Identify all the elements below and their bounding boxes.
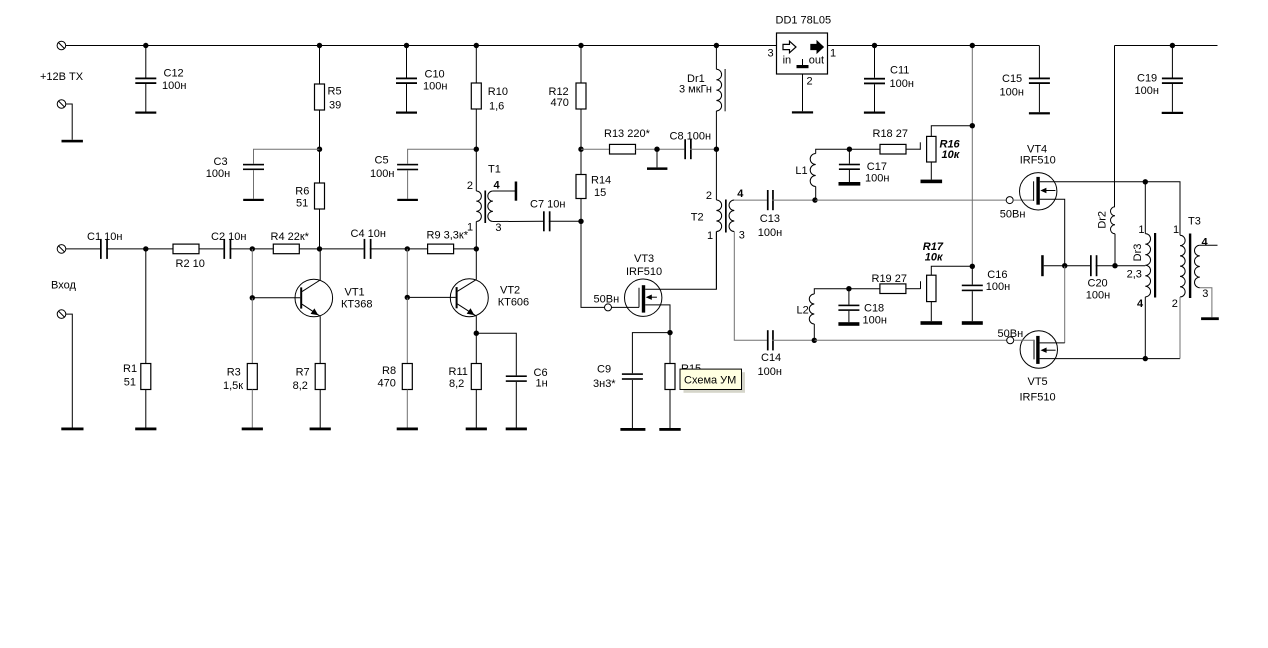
node L2 C18 R19 junction bbox=[846, 286, 851, 291]
node C20 Dr2 junction bbox=[1112, 263, 1117, 268]
svg-text:3: 3 bbox=[495, 222, 501, 234]
regulator DD1 78L05 bbox=[777, 33, 828, 74]
svg-text:1: 1 bbox=[1138, 224, 1144, 236]
wire T3 pin4 output bbox=[1200, 244, 1218, 246]
svg-text:3н3*: 3н3* bbox=[593, 378, 616, 390]
wire VT4 source bbox=[1040, 199, 1065, 265]
node bias R17 C16 bbox=[970, 264, 975, 269]
ground R16 bbox=[921, 180, 943, 184]
wire R19 to R17 wiper bbox=[906, 288, 921, 290]
ground C10 bbox=[396, 112, 417, 114]
capacitor C16 bbox=[971, 266, 973, 284]
terminal XS2 +12V return bbox=[57, 100, 66, 109]
svg-text:C13: C13 bbox=[760, 213, 780, 225]
svg-text:C9: C9 bbox=[597, 364, 611, 376]
ground C19 bbox=[1162, 112, 1183, 114]
wire R8 lower bbox=[406, 297, 408, 363]
ground R7 bbox=[310, 428, 331, 431]
capacitor C7 bbox=[543, 211, 551, 231]
svg-text:Dr3: Dr3 bbox=[1132, 244, 1144, 262]
wire midpoint to VT5 drain bbox=[1064, 266, 1066, 343]
svg-text:R2 10: R2 10 bbox=[176, 258, 205, 270]
node VT2 emitter junction bbox=[474, 331, 479, 336]
resistor R19 bbox=[849, 288, 880, 290]
svg-text:C4 10н: C4 10н bbox=[351, 228, 386, 240]
node VT4 drain Dr3 T3 junction bbox=[1143, 179, 1148, 184]
node rail R10 bbox=[474, 43, 479, 48]
R16 wiper tick bbox=[919, 142, 921, 150]
svg-text:51: 51 bbox=[296, 197, 308, 209]
svg-text:2,3: 2,3 bbox=[1127, 268, 1142, 280]
capacitor C6 bbox=[476, 333, 516, 375]
ground C17 bbox=[839, 182, 861, 186]
wire 50Вн to VT5 gate bbox=[1014, 339, 1034, 341]
svg-text:1н: 1н bbox=[536, 378, 548, 390]
wire T2 pin3 to C14 bbox=[734, 232, 767, 341]
feedthrough 50Вн VT5 bbox=[1007, 337, 1014, 344]
svg-text:1,6: 1,6 bbox=[489, 100, 504, 112]
feedthrough 50Вн VT3 bbox=[605, 304, 612, 311]
node C13 L1 junction bbox=[812, 197, 817, 202]
ground R3 bbox=[242, 428, 263, 431]
resistor R8 bbox=[402, 364, 412, 390]
resistor R18 bbox=[849, 148, 880, 150]
svg-text:C17: C17 bbox=[867, 161, 887, 173]
inductor Dr2 bbox=[1114, 46, 1116, 207]
capacitor C17 bbox=[848, 149, 850, 164]
ground C16 bbox=[962, 321, 983, 325]
wire VT1 emitter bbox=[319, 316, 321, 363]
svg-text:100н: 100н bbox=[423, 80, 447, 92]
node rail C19 bbox=[1170, 43, 1175, 48]
svg-text:C10: C10 bbox=[425, 68, 445, 80]
tooltip Схема УМ bbox=[680, 369, 745, 393]
wire C14 to node bbox=[772, 339, 814, 341]
capacitor C1 bbox=[100, 239, 108, 259]
svg-text:R5: R5 bbox=[328, 85, 342, 97]
node R12 R13 R14 junction bbox=[578, 147, 583, 152]
svg-text:L2: L2 bbox=[797, 305, 809, 317]
node VT4 VT5 midpoint bbox=[1062, 263, 1067, 268]
ground R11 bbox=[466, 428, 487, 431]
capacitor C19 bbox=[1171, 46, 1173, 78]
svg-text:R13 220*: R13 220* bbox=[604, 128, 651, 140]
wire terminal to ground bbox=[66, 104, 72, 140]
ground R8 bbox=[397, 428, 418, 431]
ground C11 bbox=[864, 112, 885, 114]
inductor L1 bbox=[816, 149, 850, 153]
wire T3 pin2 lead bbox=[1179, 297, 1181, 359]
capacitor C11 bbox=[874, 46, 876, 78]
wire R8 branch bbox=[406, 249, 408, 298]
svg-text:100н: 100н bbox=[890, 78, 914, 90]
svg-text:C14: C14 bbox=[761, 352, 781, 364]
capacitor C9 bbox=[632, 333, 670, 374]
node rail C12 bbox=[143, 43, 148, 48]
node VT3 source junction bbox=[667, 330, 672, 335]
wire VT1 collector bbox=[319, 249, 321, 280]
node R10 T1 junction bbox=[474, 147, 479, 152]
node C4 R8 R9 junction bbox=[405, 246, 410, 251]
svg-text:VT5: VT5 bbox=[1028, 376, 1048, 388]
resistor R4 bbox=[273, 244, 299, 254]
node rail R12 bbox=[578, 43, 583, 48]
svg-text:C2 10н: C2 10н bbox=[211, 231, 246, 243]
wire VT3 gate feed bbox=[581, 221, 604, 307]
wire T3 pin3 to ground bbox=[1200, 288, 1212, 318]
svg-text:T1: T1 bbox=[488, 163, 501, 175]
svg-text:50Вн: 50Вн bbox=[998, 328, 1024, 340]
resistor R13 bbox=[581, 148, 610, 150]
svg-text:100н: 100н bbox=[370, 168, 394, 180]
svg-text:R1: R1 bbox=[123, 363, 137, 375]
node R13 C8 ground junction bbox=[654, 147, 659, 152]
wire T2 pin4 to C13 bbox=[734, 199, 767, 201]
svg-text:R11: R11 bbox=[449, 366, 468, 378]
R17 wiper tick bbox=[920, 281, 922, 289]
svg-text:3 мкГн: 3 мкГн bbox=[679, 83, 712, 95]
resistor R7 bbox=[315, 364, 325, 390]
wire VT3 drain bbox=[645, 232, 716, 290]
svg-text:C1 10н: C1 10н bbox=[87, 231, 122, 243]
DD1 in arrow bbox=[783, 41, 796, 53]
svg-text:100н: 100н bbox=[162, 80, 186, 92]
svg-text:R12: R12 bbox=[549, 86, 569, 98]
wire VT5 source row bbox=[1058, 358, 1181, 360]
capacitor C10 bbox=[406, 46, 408, 78]
resistor R10 bbox=[475, 46, 477, 84]
svg-text:100н: 100н bbox=[758, 366, 782, 378]
trimmer R17 bbox=[927, 275, 936, 301]
ground R17 bbox=[921, 321, 943, 325]
node rail C11 bbox=[872, 43, 877, 48]
svg-text:R4 22к*: R4 22к* bbox=[271, 231, 310, 243]
transistor VT4 IRF510 bbox=[1019, 173, 1056, 210]
wire VT5 drain bbox=[1040, 342, 1065, 344]
wire +12V right rail bbox=[1115, 45, 1218, 47]
svg-text:100н: 100н bbox=[1086, 289, 1110, 301]
svg-text:C5: C5 bbox=[375, 154, 389, 166]
wire C20 end bar bbox=[1041, 255, 1044, 276]
svg-text:10к: 10к bbox=[925, 252, 944, 264]
DD1 internal ground bbox=[802, 59, 804, 65]
svg-text:T3: T3 bbox=[1188, 216, 1201, 228]
ground +12V terminal bbox=[62, 140, 83, 143]
wire +12V rail bbox=[66, 45, 777, 47]
svg-text:КТ368: КТ368 bbox=[341, 298, 372, 310]
svg-text:4: 4 bbox=[737, 188, 744, 200]
ground input terminal bbox=[61, 428, 83, 431]
svg-text:C12: C12 bbox=[164, 68, 184, 80]
node rail R5 bbox=[317, 43, 322, 48]
ground C9 bbox=[620, 428, 645, 431]
ground C18 bbox=[838, 322, 859, 326]
capacitor C12 bbox=[145, 46, 147, 78]
svg-text:10к: 10к bbox=[942, 149, 961, 161]
capacitor C2 bbox=[223, 239, 231, 259]
svg-text:3: 3 bbox=[739, 230, 745, 242]
wire input ground bbox=[66, 314, 73, 427]
svg-text:3: 3 bbox=[768, 48, 774, 60]
capacitor C18 bbox=[848, 289, 850, 305]
resistor R2 bbox=[173, 244, 199, 254]
svg-text:470: 470 bbox=[551, 97, 569, 109]
svg-text:470: 470 bbox=[378, 378, 396, 390]
wire gate VT5 bbox=[814, 339, 1006, 341]
node rail C10 bbox=[404, 43, 409, 48]
ground R1 bbox=[135, 428, 156, 431]
resistor R6 bbox=[319, 149, 321, 183]
node L1 C17 R18 junction bbox=[847, 147, 852, 152]
resistor R11 bbox=[471, 364, 481, 390]
wire VT4 drain bbox=[1040, 181, 1146, 183]
wire VT2 collector bbox=[475, 249, 477, 280]
terminal XS3 input bbox=[57, 245, 66, 254]
resistor R15 bbox=[669, 333, 671, 364]
wire T1 pin3 to C7 bbox=[493, 220, 543, 222]
svg-text:100н: 100н bbox=[986, 281, 1010, 293]
svg-text:1: 1 bbox=[707, 230, 713, 242]
capacitor C15 bbox=[1038, 46, 1040, 78]
node C2 R3 R4 junction bbox=[250, 246, 255, 251]
svg-text:C19: C19 bbox=[1137, 73, 1157, 85]
svg-text:R19 27: R19 27 bbox=[872, 273, 907, 285]
svg-text:C15: C15 bbox=[1002, 73, 1022, 85]
svg-text:1: 1 bbox=[467, 221, 473, 233]
svg-text:4: 4 bbox=[1137, 298, 1144, 310]
wire R18 to R16 wiper bbox=[906, 148, 920, 150]
node R9 T1 VT2 collector junction bbox=[474, 246, 479, 251]
svg-text:C3: C3 bbox=[214, 156, 228, 168]
svg-text:51: 51 bbox=[124, 377, 136, 389]
svg-text:Вход: Вход bbox=[51, 279, 76, 291]
transistor VT3 IRF510 bbox=[625, 279, 662, 316]
terminal XS4 input return bbox=[57, 310, 66, 319]
feedthrough 50Вн VT4 bbox=[1006, 197, 1013, 204]
svg-text:DD1 78L05: DD1 78L05 bbox=[776, 14, 832, 26]
transistor VT2 KT606 bbox=[450, 279, 488, 317]
capacitor C14 bbox=[767, 330, 774, 350]
svg-text:IRF510: IRF510 bbox=[1020, 154, 1056, 166]
trimmer R16 bbox=[927, 136, 936, 162]
svg-text:R8: R8 bbox=[382, 365, 396, 377]
svg-text:C20: C20 bbox=[1088, 278, 1108, 290]
svg-text:4: 4 bbox=[1202, 236, 1209, 248]
wire 50Вн to VT4 gate bbox=[1013, 199, 1033, 201]
ground R15 bbox=[659, 428, 680, 431]
svg-text:R3: R3 bbox=[227, 367, 241, 379]
ground C12 bbox=[135, 112, 156, 114]
wire VT2 base bbox=[407, 296, 455, 298]
node bias R16 bbox=[970, 123, 975, 128]
svg-text:15: 15 bbox=[594, 187, 606, 199]
wire T3 pin1 lead bbox=[1145, 182, 1180, 236]
capacitor C20 bbox=[1090, 255, 1097, 276]
ground mid C8 bbox=[656, 149, 658, 167]
node rail bias bbox=[970, 43, 975, 48]
resistor R12 bbox=[580, 46, 582, 84]
svg-text:C16: C16 bbox=[987, 269, 1007, 281]
ground C6 bbox=[506, 428, 527, 431]
terminal XS1 +12V bbox=[57, 41, 66, 50]
wire T1 pin4 stub bbox=[493, 190, 516, 192]
svg-text:100н: 100н bbox=[1000, 86, 1024, 98]
ground DD1 pin2 bbox=[792, 111, 813, 113]
node Dr3 pin4 junction bbox=[1143, 356, 1148, 361]
svg-text:2: 2 bbox=[807, 76, 813, 88]
inductor Dr1 bbox=[715, 46, 717, 70]
svg-text:100н: 100н bbox=[1135, 85, 1159, 97]
node C14 L2 junction bbox=[812, 338, 817, 343]
svg-text:VT2: VT2 bbox=[500, 284, 520, 296]
transformer T1 bbox=[476, 149, 493, 249]
transformer T2 bbox=[716, 149, 734, 289]
node rail Dr1 bbox=[714, 43, 719, 48]
svg-text:39: 39 bbox=[329, 99, 341, 111]
wire 50Вн to VT3 gate bbox=[612, 306, 640, 308]
svg-text:R18 27: R18 27 bbox=[873, 128, 908, 140]
svg-text:R6: R6 bbox=[295, 186, 309, 198]
svg-text:2: 2 bbox=[706, 190, 712, 202]
svg-text:8,2: 8,2 bbox=[293, 380, 308, 392]
capacitor C4 bbox=[364, 239, 372, 259]
resistor R5 bbox=[319, 46, 321, 85]
node Dr1 C8 T2 junction bbox=[714, 147, 719, 152]
svg-text:50Вн: 50Вн bbox=[1000, 209, 1026, 221]
svg-text:in: in bbox=[783, 54, 792, 66]
svg-text:C8 100н: C8 100н bbox=[670, 130, 712, 142]
resistor R9 bbox=[428, 244, 454, 254]
svg-text:T2: T2 bbox=[691, 211, 704, 223]
capacitor C8 bbox=[684, 139, 691, 159]
node VT2 base junction bbox=[405, 295, 410, 300]
svg-text:100н: 100н bbox=[206, 168, 230, 180]
wire gate VT4 bbox=[815, 199, 1006, 201]
resistor R3 bbox=[247, 364, 257, 390]
svg-text:out: out bbox=[809, 54, 824, 66]
DD1 out arrow bbox=[811, 41, 824, 53]
svg-text:C7 10н: C7 10н bbox=[530, 199, 565, 211]
ground C15 bbox=[1029, 112, 1050, 114]
svg-text:R7: R7 bbox=[296, 367, 310, 379]
capacitor C3 bbox=[254, 149, 320, 164]
svg-text:2: 2 bbox=[467, 180, 473, 192]
svg-text:100н: 100н bbox=[863, 314, 887, 326]
wire +5V rail bbox=[828, 45, 1040, 47]
svg-text:100н: 100н bbox=[865, 172, 889, 184]
wire DD1 pin2 bbox=[802, 74, 804, 111]
resistor R1 bbox=[145, 249, 147, 364]
node C7 R14 gate junction bbox=[578, 219, 583, 224]
svg-text:Схема УМ: Схема УМ bbox=[684, 375, 736, 387]
wire VT2 emitter to R11 bbox=[475, 333, 477, 363]
wire VT1 base bbox=[252, 297, 300, 299]
node C1 R1 junction bbox=[143, 246, 148, 251]
resistor R14 bbox=[580, 149, 582, 174]
transformer T3 bbox=[1180, 234, 1200, 299]
capacitor C13 bbox=[767, 190, 774, 210]
node R5 R6 junction bbox=[317, 147, 322, 152]
svg-text:50Вн: 50Вн bbox=[594, 293, 620, 305]
svg-text:КТ606: КТ606 bbox=[498, 297, 529, 309]
svg-text:IRF510: IRF510 bbox=[626, 266, 662, 278]
svg-text:R9 3,3к*: R9 3,3к* bbox=[427, 230, 469, 242]
svg-text:2: 2 bbox=[1172, 298, 1178, 310]
svg-text:C18: C18 bbox=[864, 303, 884, 315]
wire VT5 source bbox=[1040, 358, 1058, 360]
svg-text:4: 4 bbox=[494, 180, 501, 192]
node VT1 base junction bbox=[250, 295, 255, 300]
inductor Dr3 bbox=[1144, 182, 1146, 234]
transistor VT5 IRF510 bbox=[1020, 331, 1057, 368]
inductor L2 bbox=[814, 289, 849, 294]
wire midpoint row bbox=[1044, 265, 1090, 267]
wire VT3 source bbox=[645, 305, 670, 333]
svg-text:100н: 100н bbox=[758, 227, 782, 239]
wire C20 to Dr3 tap bbox=[1096, 265, 1146, 267]
svg-text:1: 1 bbox=[1173, 224, 1179, 236]
node R4 R6 VT1 collector junction bbox=[317, 246, 322, 251]
wire C13 to node bbox=[772, 199, 815, 201]
svg-text:Dr2: Dr2 bbox=[1096, 211, 1108, 229]
svg-text:VT3: VT3 bbox=[634, 253, 654, 265]
wire R3 branch bbox=[251, 249, 253, 298]
svg-text:+12В ТХ: +12В ТХ bbox=[40, 71, 84, 83]
svg-text:R14: R14 bbox=[591, 175, 611, 187]
svg-text:R10: R10 bbox=[488, 86, 508, 98]
transistor VT1 KT368 bbox=[295, 279, 333, 317]
ground C3 bbox=[243, 199, 264, 201]
ground T3 pin3 bbox=[1201, 317, 1219, 320]
svg-text:8,2: 8,2 bbox=[449, 378, 464, 390]
svg-text:1,5к: 1,5к bbox=[223, 380, 243, 392]
svg-text:1: 1 bbox=[830, 48, 836, 60]
T1 pin4 end bar bbox=[515, 182, 518, 201]
svg-text:L1: L1 bbox=[795, 165, 807, 177]
capacitor C5 bbox=[408, 149, 477, 164]
ground C5 bbox=[397, 199, 418, 201]
svg-text:IRF510: IRF510 bbox=[1020, 391, 1056, 403]
svg-text:3: 3 bbox=[1202, 288, 1208, 300]
wire +5V bias feed bbox=[971, 46, 973, 267]
wire input row bbox=[66, 248, 100, 250]
wire VT2 emitter bbox=[475, 316, 477, 333]
wire R3 lower bbox=[251, 298, 253, 364]
svg-text:C11: C11 bbox=[890, 65, 909, 77]
svg-text:VT1: VT1 bbox=[345, 286, 365, 298]
